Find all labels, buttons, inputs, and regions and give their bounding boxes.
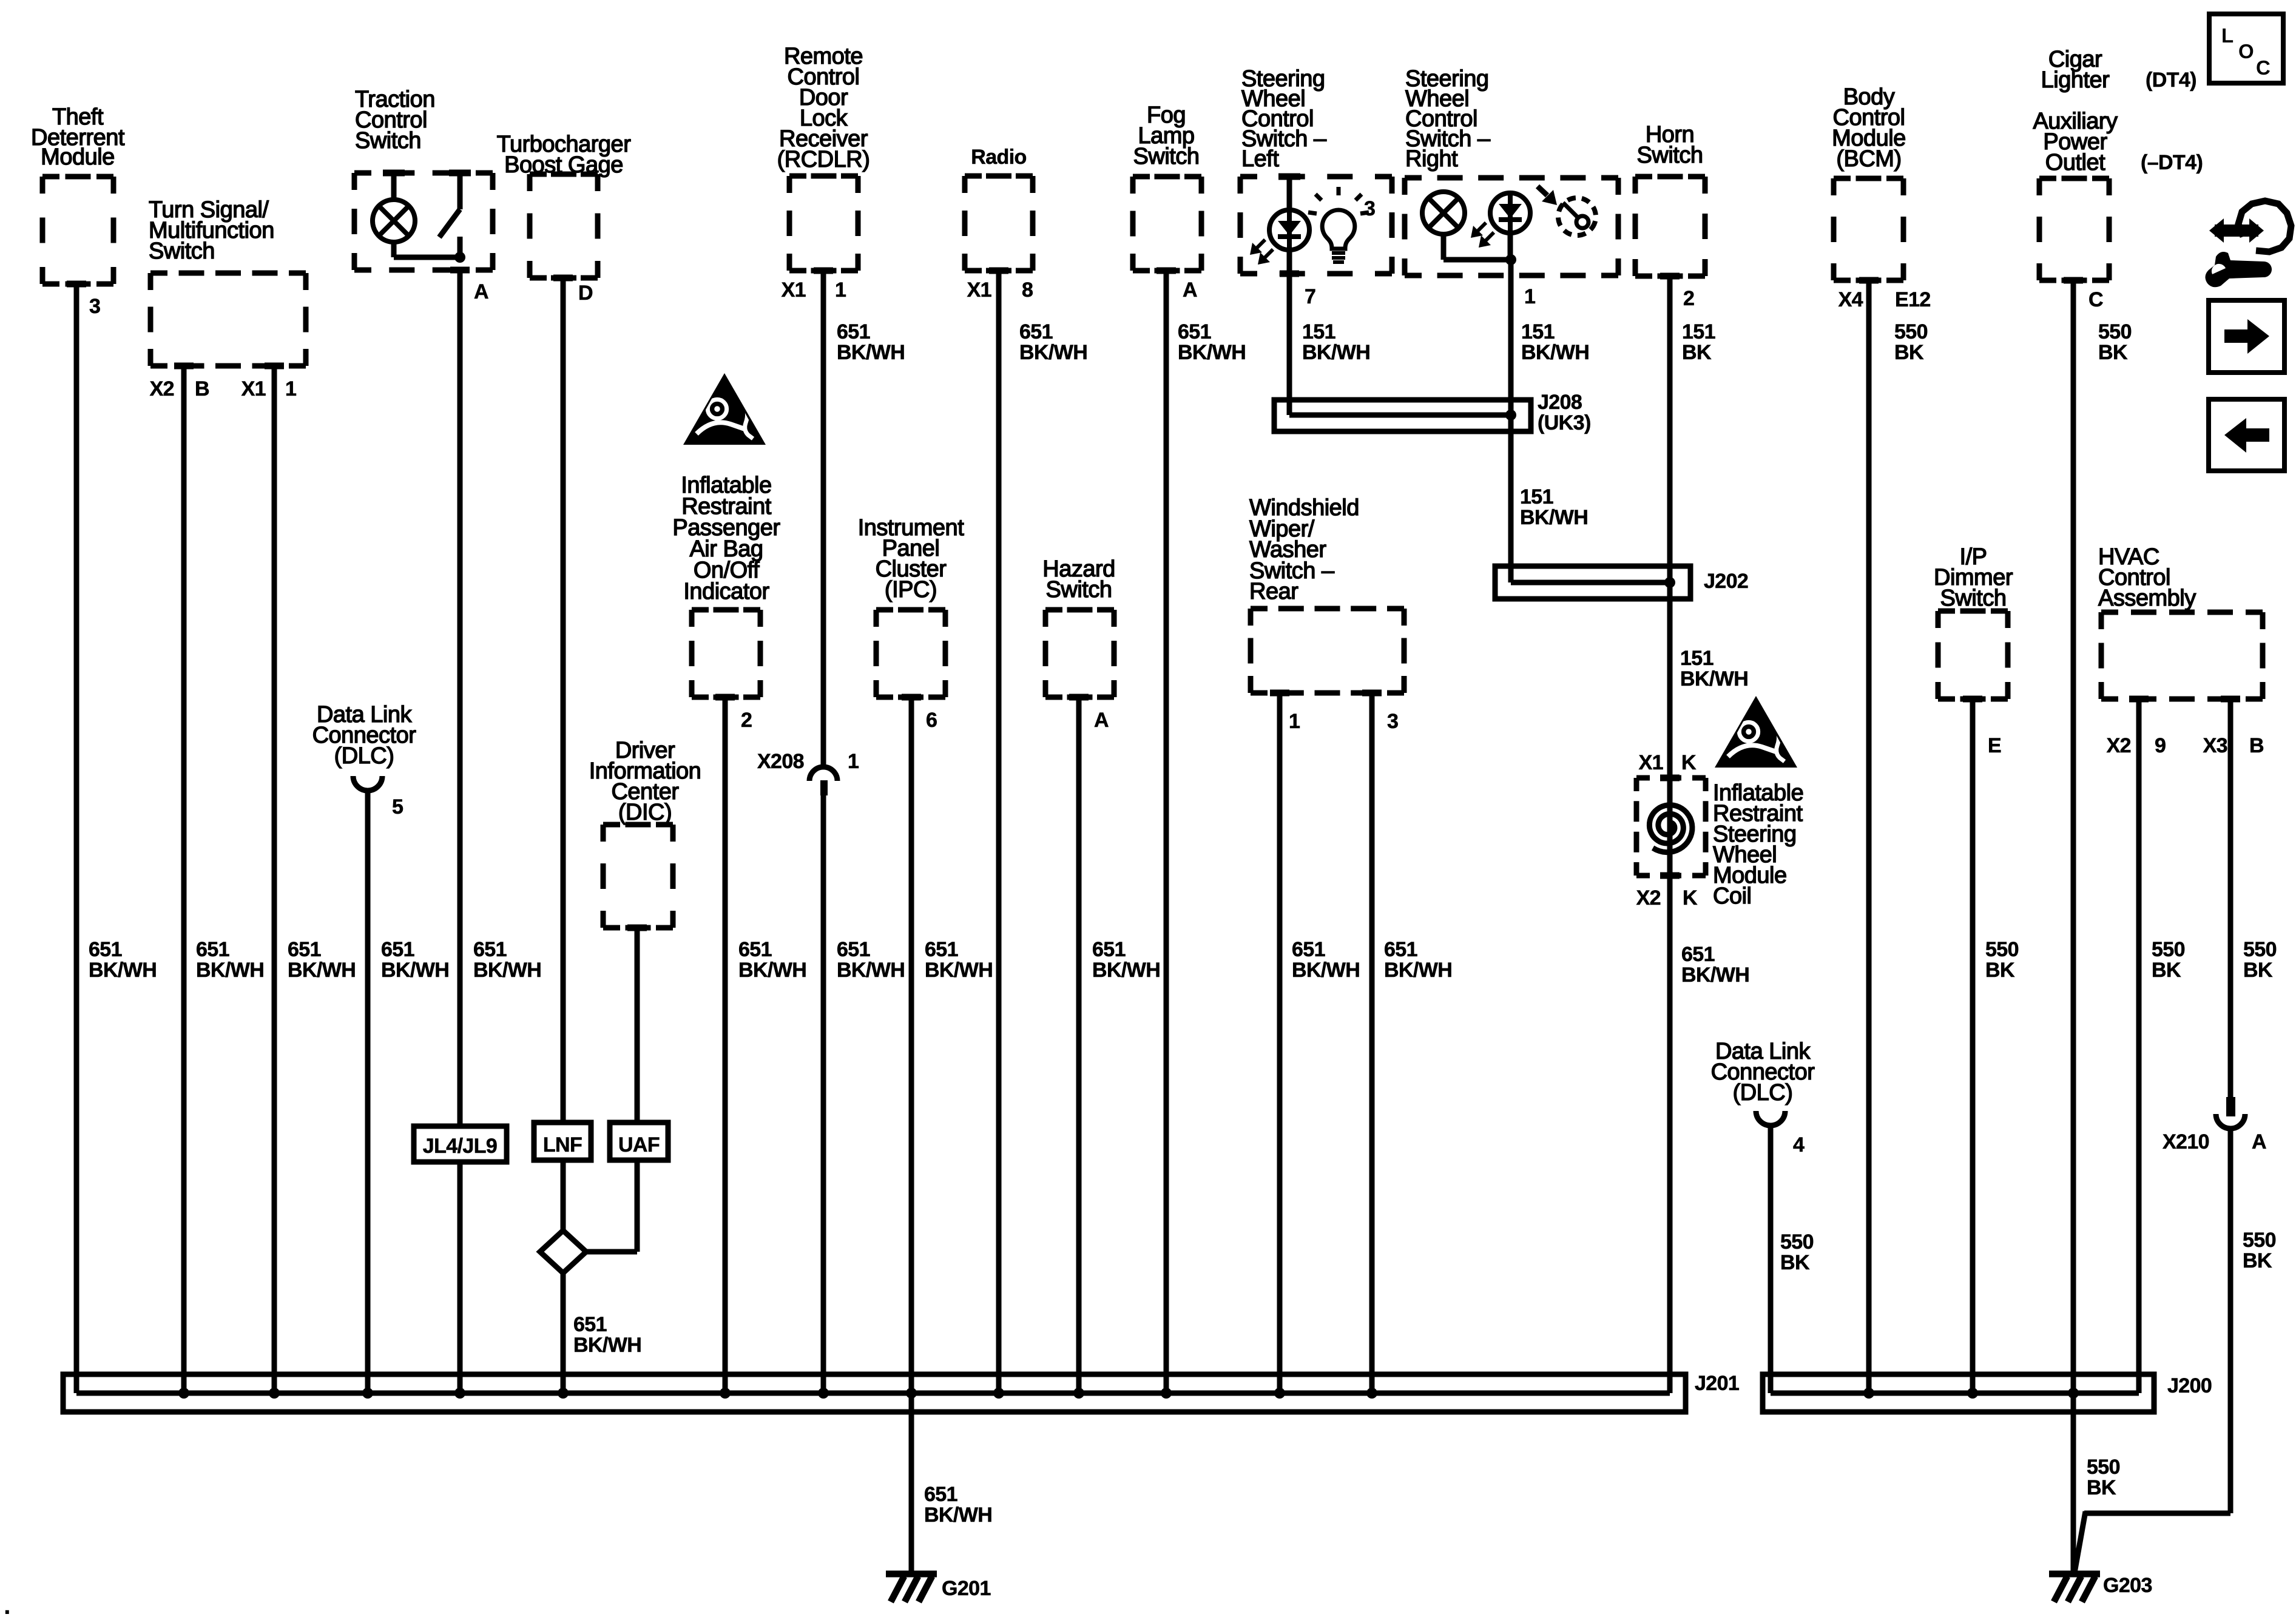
svg-text:(DIC): (DIC): [618, 800, 672, 825]
svg-text:J201: J201: [1695, 1372, 1739, 1395]
svg-text:(DLC): (DLC): [334, 743, 394, 769]
svg-text:BK: BK: [2243, 1249, 2272, 1272]
svg-text:Coil: Coil: [1713, 883, 1751, 909]
svg-text:BK: BK: [2098, 341, 2128, 364]
svg-text:K: K: [1683, 886, 1698, 910]
svg-text:8: 8: [1022, 279, 1033, 302]
svg-text:151: 151: [1680, 647, 1714, 670]
svg-text:BK/WH: BK/WH: [1092, 959, 1160, 982]
svg-text:Module: Module: [41, 144, 115, 170]
svg-text:BK/WH: BK/WH: [1520, 506, 1588, 529]
svg-text:2: 2: [1683, 287, 1694, 310]
svg-text:BK/WH: BK/WH: [89, 959, 157, 982]
svg-text:Switch: Switch: [1637, 143, 1703, 168]
svg-text:2: 2: [741, 709, 752, 732]
svg-text:L: L: [2221, 24, 2234, 47]
svg-text:(DLC): (DLC): [1733, 1080, 1793, 1106]
svg-text:1: 1: [285, 377, 296, 400]
svg-text:.: .: [4, 1591, 11, 1617]
svg-text:A: A: [1183, 279, 1197, 302]
svg-text:151: 151: [1682, 320, 1715, 343]
svg-text:Switch: Switch: [1940, 586, 2007, 611]
svg-text:BK: BK: [2087, 1476, 2116, 1499]
svg-text:E: E: [1988, 734, 2001, 757]
svg-text:651: 651: [837, 938, 870, 961]
svg-text:BK: BK: [1985, 959, 2015, 982]
svg-text:X3: X3: [2203, 734, 2227, 757]
svg-text:G203: G203: [2103, 1574, 2152, 1597]
svg-text:BK/WH: BK/WH: [924, 1504, 992, 1527]
svg-text:Rear: Rear: [1249, 579, 1298, 604]
svg-text:BK/WH: BK/WH: [1178, 341, 1246, 364]
svg-text:BK: BK: [2152, 959, 2181, 982]
svg-text:BK/WH: BK/WH: [738, 959, 806, 982]
svg-text:BK: BK: [1780, 1251, 1810, 1274]
svg-text:1: 1: [848, 750, 859, 773]
svg-text:BK: BK: [2243, 959, 2273, 982]
svg-text:B: B: [2249, 734, 2264, 757]
svg-text:K: K: [1681, 751, 1697, 774]
svg-text:BK/WH: BK/WH: [1680, 667, 1748, 690]
svg-text:X1: X1: [241, 377, 266, 400]
svg-text:5: 5: [392, 795, 403, 819]
svg-text:D: D: [578, 282, 593, 305]
svg-text:Indicator: Indicator: [683, 579, 769, 604]
svg-text:651: 651: [925, 938, 958, 961]
svg-text:J200: J200: [2167, 1374, 2212, 1397]
svg-text:651: 651: [288, 938, 321, 961]
svg-text:651: 651: [1292, 938, 1325, 961]
svg-text:9: 9: [2155, 734, 2166, 757]
svg-text:A: A: [474, 280, 488, 303]
svg-text:651: 651: [1384, 938, 1417, 961]
svg-text:Switch: Switch: [1046, 577, 1112, 603]
svg-text:X2: X2: [150, 377, 174, 400]
svg-text:BK/WH: BK/WH: [1384, 959, 1452, 982]
svg-text:Outlet: Outlet: [2045, 150, 2105, 175]
svg-text:651: 651: [924, 1483, 957, 1506]
svg-text:(IPC): (IPC): [885, 577, 937, 603]
svg-text:Switch: Switch: [355, 128, 421, 154]
svg-text:A: A: [2252, 1130, 2266, 1153]
svg-text:550: 550: [1985, 938, 2019, 961]
svg-text:550: 550: [1894, 320, 1928, 343]
svg-text:BK/WH: BK/WH: [1302, 341, 1370, 364]
svg-text:550: 550: [1780, 1230, 1814, 1254]
svg-text:6: 6: [926, 709, 937, 732]
svg-text:Left: Left: [1241, 146, 1279, 172]
svg-text:651: 651: [1178, 320, 1211, 343]
svg-text:651: 651: [381, 938, 414, 961]
svg-text:BK/WH: BK/WH: [473, 959, 541, 982]
svg-text:3: 3: [1387, 710, 1398, 733]
svg-text:651: 651: [837, 320, 870, 343]
svg-text:550: 550: [2243, 1229, 2276, 1252]
svg-text:550: 550: [2087, 1456, 2120, 1479]
svg-text:550: 550: [2243, 938, 2277, 961]
svg-text:O: O: [2238, 40, 2254, 62]
svg-text:X1: X1: [782, 279, 806, 302]
svg-text:X2: X2: [2107, 734, 2131, 757]
svg-text:151: 151: [1520, 485, 1553, 508]
svg-text:BK/WH: BK/WH: [837, 341, 905, 364]
svg-text:151: 151: [1521, 320, 1555, 343]
svg-text:(DT4): (DT4): [2146, 69, 2196, 92]
svg-text:3: 3: [89, 295, 100, 318]
svg-text:651: 651: [196, 938, 229, 961]
svg-text:B: B: [195, 377, 209, 400]
svg-text:BK/WH: BK/WH: [381, 959, 449, 982]
svg-text:J202: J202: [1704, 570, 1748, 593]
svg-text:BK/WH: BK/WH: [1292, 959, 1360, 982]
svg-text:Switch: Switch: [1133, 144, 1200, 169]
svg-text:Lighter: Lighter: [2041, 67, 2110, 93]
svg-text:151: 151: [1302, 320, 1335, 343]
svg-text:G201: G201: [942, 1577, 991, 1600]
svg-text:A: A: [1094, 709, 1109, 732]
svg-text:651: 651: [1019, 320, 1053, 343]
svg-text:550: 550: [2098, 320, 2132, 343]
svg-text:(BCM): (BCM): [1836, 146, 1901, 172]
svg-text:Switch: Switch: [149, 238, 215, 264]
svg-text:X1: X1: [1639, 751, 1663, 774]
svg-text:1: 1: [1289, 710, 1300, 733]
svg-text:J208: J208: [1538, 391, 1582, 414]
svg-text:LNF: LNF: [543, 1133, 582, 1156]
svg-text:JL4/JL9: JL4/JL9: [423, 1135, 497, 1158]
svg-text:Assembly: Assembly: [2098, 586, 2196, 611]
svg-text:7: 7: [1305, 285, 1315, 308]
svg-text:Right: Right: [1405, 146, 1458, 172]
svg-text:BK/WH: BK/WH: [288, 959, 356, 982]
svg-text:X1: X1: [967, 279, 991, 302]
svg-text:BK/WH: BK/WH: [573, 1334, 641, 1357]
svg-text:651: 651: [89, 938, 122, 961]
svg-text:BK/WH: BK/WH: [1521, 341, 1589, 364]
svg-text:1: 1: [1524, 285, 1535, 308]
svg-text:X208: X208: [757, 750, 804, 773]
svg-text:BK: BK: [1894, 341, 1924, 364]
svg-text:651: 651: [573, 1313, 607, 1336]
svg-text:(RCDLR): (RCDLR): [777, 147, 870, 172]
svg-text:3: 3: [1364, 197, 1375, 220]
svg-text:651: 651: [1681, 943, 1715, 966]
svg-text:UAF: UAF: [618, 1133, 660, 1156]
svg-text:550: 550: [2152, 938, 2185, 961]
svg-text:651: 651: [738, 938, 772, 961]
svg-text:E12: E12: [1895, 288, 1931, 311]
svg-text:1: 1: [835, 279, 846, 302]
svg-text:C: C: [2256, 56, 2271, 79]
svg-text:BK/WH: BK/WH: [1019, 341, 1087, 364]
svg-text:Radio: Radio: [971, 146, 1026, 169]
svg-text:BK/WH: BK/WH: [837, 959, 905, 982]
svg-text:BK/WH: BK/WH: [1681, 964, 1749, 987]
svg-text:(–DT4): (–DT4): [2141, 151, 2203, 174]
svg-text:651: 651: [1092, 938, 1126, 961]
svg-text:4: 4: [1793, 1133, 1805, 1156]
svg-text:X210: X210: [2163, 1130, 2209, 1153]
svg-text:X4: X4: [1838, 288, 1863, 311]
svg-text:X2: X2: [1636, 886, 1661, 910]
svg-text:Boost Gage: Boost Gage: [504, 152, 623, 178]
svg-text:BK: BK: [1682, 341, 1712, 364]
svg-text:651: 651: [473, 938, 507, 961]
svg-text:C: C: [2088, 288, 2103, 311]
svg-text:BK/WH: BK/WH: [925, 959, 993, 982]
svg-text:BK/WH: BK/WH: [196, 959, 264, 982]
svg-text:(UK3): (UK3): [1538, 411, 1591, 434]
